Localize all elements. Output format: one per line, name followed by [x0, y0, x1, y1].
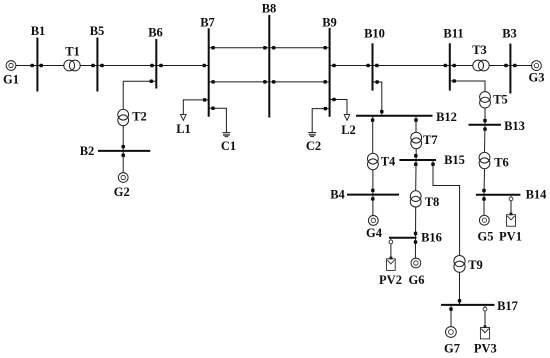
- svg-text:T4: T4: [381, 155, 396, 169]
- svg-text:B6: B6: [148, 26, 163, 40]
- svg-text:B8: B8: [262, 2, 277, 16]
- svg-text:B11: B11: [443, 27, 463, 41]
- svg-text:B10: B10: [364, 27, 385, 41]
- svg-text:L2: L2: [341, 123, 356, 137]
- svg-text:B9: B9: [322, 16, 337, 30]
- svg-text:G4: G4: [366, 226, 383, 240]
- svg-text:B3: B3: [502, 27, 517, 41]
- svg-text:B7: B7: [200, 16, 215, 30]
- svg-text:PV1: PV1: [499, 229, 522, 243]
- svg-text:B4: B4: [330, 187, 345, 201]
- svg-text:T1: T1: [65, 45, 80, 59]
- svg-text:T2: T2: [132, 110, 147, 124]
- svg-text:B1: B1: [31, 24, 46, 38]
- svg-text:B16: B16: [421, 231, 442, 245]
- svg-text:PV2: PV2: [379, 273, 402, 287]
- svg-text:C1: C1: [221, 139, 236, 153]
- svg-text:B12: B12: [436, 110, 457, 124]
- svg-text:B14: B14: [526, 188, 548, 202]
- svg-text:B15: B15: [444, 153, 465, 167]
- svg-text:G3: G3: [529, 71, 545, 85]
- svg-text:L1: L1: [176, 122, 191, 136]
- svg-text:T8: T8: [425, 195, 440, 209]
- svg-text:PV3: PV3: [474, 341, 497, 355]
- svg-text:C2: C2: [306, 139, 321, 153]
- svg-text:G7: G7: [444, 341, 460, 355]
- svg-text:B13: B13: [504, 119, 525, 133]
- svg-text:G2: G2: [114, 185, 130, 199]
- svg-text:T5: T5: [493, 93, 508, 107]
- svg-text:T9: T9: [468, 258, 483, 272]
- svg-text:G1: G1: [3, 72, 19, 86]
- svg-text:T6: T6: [494, 155, 509, 169]
- svg-text:T3: T3: [472, 43, 487, 57]
- svg-text:G5: G5: [478, 229, 494, 243]
- svg-text:B5: B5: [90, 24, 105, 38]
- svg-text:B2: B2: [80, 144, 95, 158]
- svg-text:B17: B17: [497, 299, 518, 313]
- svg-text:G6: G6: [409, 273, 425, 287]
- svg-text:T7: T7: [423, 133, 438, 147]
